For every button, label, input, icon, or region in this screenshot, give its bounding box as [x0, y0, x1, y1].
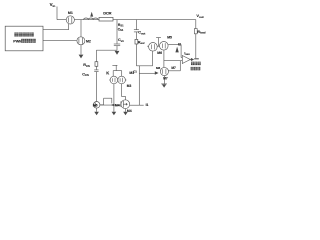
- svg-text:I2: I2: [178, 42, 181, 46]
- svg-text:I1: I1: [146, 103, 149, 107]
- svg-text:RCS: RCS: [83, 63, 90, 68]
- svg-text:M7: M7: [163, 77, 168, 81]
- svg-text:M2: M2: [86, 39, 91, 43]
- svg-text:PWM: PWM: [13, 39, 22, 43]
- svg-text:M1: M1: [68, 11, 73, 15]
- svg-text:DCR: DCR: [103, 10, 111, 15]
- svg-text:Rload: Rload: [197, 30, 205, 35]
- svg-text:Isen: Isen: [184, 52, 190, 57]
- svg-text:K: K: [106, 71, 109, 76]
- svg-text:Cout: Cout: [138, 31, 145, 36]
- svg-text:M8: M8: [156, 66, 160, 70]
- svg-text:Resr: Resr: [138, 40, 146, 45]
- svg-text:M5: M5: [167, 36, 172, 40]
- svg-text:CS1: CS1: [118, 28, 124, 33]
- svg-text:Vout: Vout: [196, 13, 203, 19]
- svg-text:M5: M5: [93, 103, 98, 107]
- svg-text:M7: M7: [171, 66, 176, 70]
- svg-text:Vin: Vin: [50, 2, 56, 8]
- svg-text:M4: M4: [127, 109, 132, 113]
- svg-text:M3: M3: [127, 84, 132, 88]
- svg-text:M6: M6: [157, 51, 162, 55]
- svg-text:CCS: CCS: [82, 72, 89, 77]
- svg-text:Cs1: Cs1: [118, 38, 124, 43]
- svg-text:M4: M4: [115, 103, 120, 107]
- svg-text:C1: C1: [133, 70, 137, 74]
